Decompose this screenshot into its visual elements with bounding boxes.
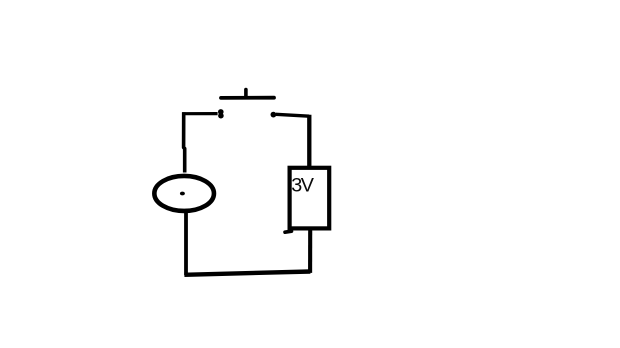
push-button switch S1 cap xyxy=(221,90,274,98)
wire bottom horizontal xyxy=(184,272,310,275)
switch right contact dot xyxy=(271,112,277,118)
battery bottom-left tick xyxy=(285,231,292,232)
wire left vertical xyxy=(184,112,185,172)
wire top-right vertical xyxy=(307,115,311,167)
wire bottom-right vertical xyxy=(308,229,312,273)
wire bottom-left vertical xyxy=(184,212,188,276)
switch left contact dot xyxy=(218,109,224,118)
lamp L1 xyxy=(154,176,214,211)
wire top-right horizontal xyxy=(276,114,309,116)
wire top-left horizontal xyxy=(182,112,217,115)
label 3V xyxy=(291,175,315,197)
lamp center dot xyxy=(180,192,185,196)
battery B1 rectangle xyxy=(290,168,330,229)
svg-text:3V: 3V xyxy=(291,175,315,197)
